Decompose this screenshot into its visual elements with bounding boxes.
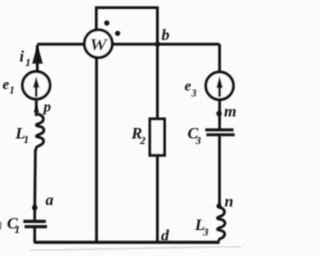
- scan artifact left edge mark 2: [0, 222, 2, 230]
- wire right branch top to e3: [218, 44, 221, 73]
- wire right branch e3 to C3: [218, 99, 221, 129]
- scan artifact faint line below bottom wire: [30, 247, 241, 251]
- source e3 circle: [206, 72, 234, 100]
- node b junction blob: [155, 42, 160, 47]
- wire left branch e1 to L1: [35, 99, 38, 116]
- svg-text:n: n: [225, 194, 234, 211]
- wire top horizontal from node p-branch corner to right branch: [37, 43, 219, 46]
- wattmeter polarity dot 2: [115, 31, 120, 36]
- capacitor C1 bottom plate: [25, 225, 47, 228]
- wire left branch arrow stem: [36, 45, 39, 73]
- current i1 arrowhead: [32, 45, 43, 64]
- capacitor C3 top plate: [205, 128, 233, 131]
- svg-text:3: 3: [202, 227, 209, 239]
- svg-text:1: 1: [15, 224, 21, 236]
- svg-text:e: e: [3, 77, 10, 93]
- svg-text:b: b: [162, 27, 170, 44]
- svg-text:2: 2: [139, 135, 146, 147]
- svg-text:3: 3: [195, 135, 202, 147]
- svg-text:1: 1: [10, 86, 15, 97]
- svg-text:e: e: [185, 79, 192, 95]
- svg-text:m: m: [224, 104, 236, 121]
- wire middle branch R2 to d: [156, 155, 159, 243]
- resistor R2 body: [150, 119, 165, 155]
- source e1 circle: [22, 72, 50, 100]
- capacitor C1 top plate: [23, 220, 45, 223]
- wire right branch C3 to n: [218, 136, 221, 208]
- wire left branch L1 to C1: [33, 150, 37, 221]
- svg-text:3: 3: [191, 89, 197, 100]
- wattmeter U1 circle: [84, 30, 112, 58]
- node m dot: [216, 111, 221, 116]
- svg-text:p: p: [42, 100, 52, 116]
- svg-text:1: 1: [24, 134, 30, 146]
- svg-text:a: a: [46, 192, 54, 209]
- svg-text:d: d: [161, 228, 170, 245]
- wire bottom horizontal: [34, 241, 219, 244]
- source e3 arrow: [218, 87, 221, 97]
- capacitor C3 bottom plate: [206, 133, 234, 136]
- node n dot: [216, 204, 221, 209]
- wire left branch C1 to bottom: [33, 228, 36, 243]
- wire middle branch b to R2: [156, 44, 159, 119]
- inductor L1: [36, 114, 44, 151]
- svg-text:W: W: [90, 35, 110, 54]
- inductor L3: [217, 207, 225, 241]
- node p tick: [34, 105, 39, 112]
- wire wattmeter voltage loop: [96, 8, 157, 45]
- svg-text:i: i: [20, 49, 25, 66]
- wattmeter polarity dot 1: [104, 20, 109, 25]
- wire wattmeter branch down: [95, 57, 98, 243]
- source e1 arrow: [35, 86, 38, 97]
- node a dot: [32, 205, 37, 210]
- svg-text:1: 1: [25, 57, 31, 69]
